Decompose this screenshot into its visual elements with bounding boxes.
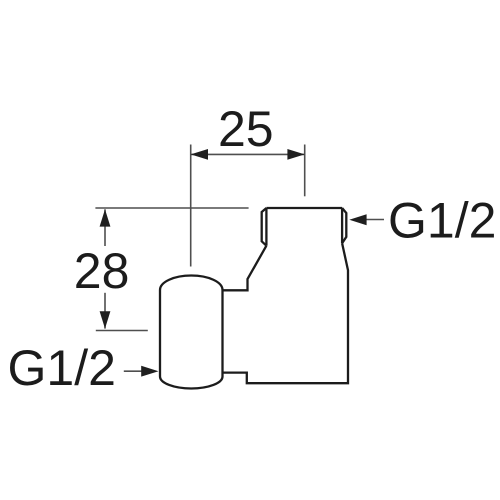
svg-text:25: 25 bbox=[218, 101, 274, 157]
svg-text:G1/2: G1/2 bbox=[8, 340, 116, 396]
svg-text:G1/2: G1/2 bbox=[388, 193, 496, 249]
svg-text:28: 28 bbox=[74, 243, 130, 299]
